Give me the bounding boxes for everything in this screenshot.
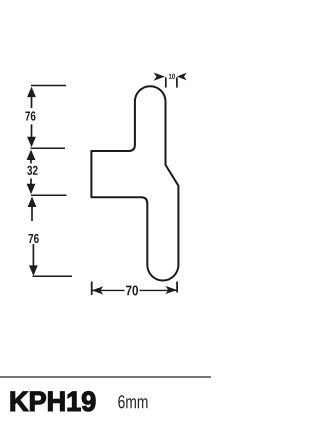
dimension arrow up, 76 upper	[27, 87, 36, 108]
top dimension 10: left arrowhead	[154, 73, 165, 81]
top dimension 10: right arrowhead	[177, 73, 187, 81]
width dimension 70: left arrowhead	[92, 286, 104, 294]
label 32	[27, 166, 37, 175]
extension line third	[31, 194, 67, 196]
dimension arrow down, 32	[27, 179, 36, 195]
label 76 lower	[29, 234, 39, 243]
label 10	[169, 74, 175, 79]
width dimension 70: left tick	[91, 282, 93, 296]
dimension arrow down, 76 upper	[27, 124, 36, 147]
width dimension 70: right arrowhead	[165, 286, 177, 294]
dimension arrow down, 76 lower	[29, 244, 38, 276]
width dimension 70: dimension line	[93, 289, 177, 291]
footer label KPH19	[11, 391, 95, 411]
dimension arrow up, 76 lower	[28, 197, 37, 222]
dimension arrow up, 32	[27, 150, 36, 164]
extension line bottom	[33, 275, 73, 277]
label 76 upper	[25, 111, 35, 120]
extension line top	[31, 85, 66, 87]
footer rule	[0, 376, 211, 378]
top dimension 10: right tick	[176, 77, 178, 87]
width dimension 70: right tick	[176, 282, 178, 293]
label 70	[126, 286, 138, 296]
profile outline: KPH19 handle cross-section	[91, 86, 178, 280]
extension line second	[31, 147, 66, 149]
footer label 6mm	[118, 395, 147, 408]
top dimension 10: left tick	[165, 77, 167, 87]
